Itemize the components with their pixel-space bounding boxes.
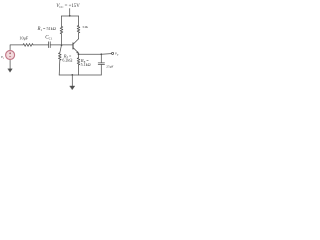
transistor Q1 emitter lead [73, 48, 79, 55]
transistor Q1 collector lead [73, 39, 79, 45]
svg-text:25μF: 25μF [106, 64, 113, 68]
svg-text:vs: vs [1, 54, 4, 60]
wire output node to terminal [101, 53, 111, 56]
wire base node up to R1 [61, 34, 63, 45]
resistor Rs [23, 44, 33, 47]
wire CC1 to base [50, 44, 73, 46]
node out junction dot [100, 53, 102, 55]
wire source to ground [9, 59, 11, 68]
svg-text:6.2kΩ: 6.2kΩ [62, 57, 72, 62]
wire CE bottom to ground rail [100, 65, 102, 76]
wire rail down to RC [78, 16, 80, 26]
resistor R2 [59, 53, 62, 60]
wire output node to CE [100, 54, 102, 63]
wire RE bottom to ground rail [78, 65, 80, 75]
wire input left corner from source to Rs [10, 45, 23, 51]
svg-text:CC1: CC1 [45, 36, 52, 41]
node B junction dot [61, 44, 63, 46]
wire base node down to R2 [60, 45, 62, 53]
resistor RE [77, 58, 80, 65]
wire RC bottom to collector [78, 33, 80, 39]
svg-text:5.1kΩ: 5.1kΩ [81, 62, 91, 67]
source Vs [6, 51, 15, 60]
node Vcc junction dot [69, 15, 71, 17]
transistor Q1 base bar [72, 43, 74, 49]
wire emitter to output node [79, 53, 102, 55]
svg-text:VCC = +15V: VCC = +15V [56, 3, 80, 9]
resistor R1 [60, 26, 63, 33]
svg-text:vo: vo [115, 51, 119, 57]
wire Vcc stub [69, 9, 71, 16]
node ground rail junction dot [71, 74, 73, 76]
wire R1 top to rail [61, 16, 63, 26]
node E junction dot [78, 53, 80, 55]
wire top rail [62, 15, 79, 17]
transistor Q1 emitter arrow [77, 52, 79, 54]
ground (source) [8, 69, 12, 72]
wire R2 bottom to ground rail [58, 60, 61, 75]
svg-text:3.9k: 3.9k [82, 25, 88, 29]
resistor RC [77, 26, 80, 33]
svg-text:10μF: 10μF [19, 35, 28, 40]
wire bottom ground rail [59, 74, 101, 76]
svg-text:R1 = 51kΩ: R1 = 51kΩ [37, 26, 56, 32]
ground (main) [71, 75, 73, 86]
node vo terminal [112, 52, 114, 54]
wire Rs to CC1 [33, 44, 48, 46]
capacitor CC1 [49, 42, 51, 48]
wire emitter down to RE [78, 54, 80, 58]
capacitor CE [98, 63, 104, 65]
